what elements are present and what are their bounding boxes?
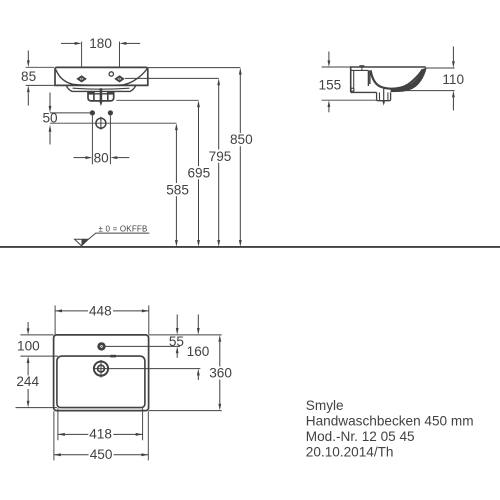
front view: basin outline (55, 67, 148, 85)
side view: underside line (351, 91, 377, 93)
svg-text:85: 85 (21, 69, 36, 84)
dimension 450 line with arrows (54, 453, 148, 456)
reference line 795 (125, 77, 219, 79)
side view: back box right wall (368, 70, 370, 86)
dimension 160 arrows (197, 315, 200, 381)
reference line 695 (116, 99, 198, 101)
drain row reference line (93, 368, 200, 370)
dimension 850 vertical line (239, 68, 242, 247)
top view: outer rim rectangle (54, 335, 149, 411)
reference line 850 (148, 67, 241, 69)
side view: back wall and top rim outline (351, 67, 426, 92)
dimension 244 line with arrows (27, 356, 30, 408)
side view: fixing hole (351, 88, 354, 91)
dimension 180 arrows (61, 42, 140, 45)
dimension 180 extension lines (82, 42, 120, 68)
svg-text:450: 450 (90, 447, 113, 462)
front view: drain circle with cross (96, 117, 106, 130)
front view: overflow circle (109, 72, 113, 76)
dimension 110 arrows (452, 47, 455, 111)
dimension 80 extension lines (92, 116, 110, 165)
drain row reference line to 585 (50, 122, 176, 124)
ground line (0, 246, 500, 248)
side view: drain trap (377, 92, 391, 100)
svg-text:20.10.2014/Th: 20.10.2014/Th (306, 444, 394, 459)
dimension 448 extension lines (55, 305, 149, 334)
top view: tap hole (97, 342, 105, 350)
bolt hole row reference line (50, 112, 90, 114)
svg-text:110: 110 (442, 72, 464, 87)
svg-text:585: 585 (166, 182, 189, 197)
svg-text:244: 244 (16, 374, 39, 389)
svg-text:795: 795 (209, 149, 232, 164)
dimension 795 vertical line (217, 78, 220, 247)
svg-text:50: 50 (42, 111, 58, 126)
dimension 418 extension lines (58, 408, 143, 440)
dimension 418 line with arrows (58, 433, 143, 436)
dimension 360 line with arrows (218, 335, 221, 411)
dimension 50 arrows (49, 93, 52, 145)
front view: left bolt hole (90, 110, 95, 115)
front view: lower apron outline (66, 85, 136, 91)
svg-text:Smyle: Smyle (306, 398, 344, 413)
svg-text:695: 695 (187, 165, 210, 180)
side view: drain stem with arrow (382, 89, 385, 106)
tap hole row reference line (105, 345, 180, 347)
dimension 55 arrows (176, 315, 179, 358)
dimension 110 reference lines (406, 68, 455, 91)
side view: rim band inner line (351, 69, 369, 71)
svg-text:160: 160 (187, 344, 210, 359)
dimension 450 extension lines (54, 411, 148, 460)
dimension 448 line with arrows (55, 309, 149, 312)
front view: right bolt hole (108, 110, 113, 115)
dimension 585 vertical line (175, 123, 178, 247)
side view: front face curve (391, 68, 426, 92)
dimension 80 arrows (74, 156, 130, 159)
dimension 360 reference lines (149, 335, 222, 411)
svg-text:180: 180 (89, 36, 112, 51)
front view: drain trap (88, 91, 114, 101)
svg-text:155: 155 (319, 77, 342, 92)
svg-text:Mod.-Nr. 12 05 45: Mod.-Nr. 12 05 45 (306, 429, 415, 444)
side view: back box inner-left vertical (353, 70, 355, 92)
svg-text:448: 448 (89, 304, 112, 319)
front view: bowl interior curve (56, 69, 147, 85)
top view: overflow slot (110, 355, 116, 358)
svg-text:55: 55 (169, 334, 184, 349)
front view: left fixing hole diamond (76, 75, 87, 82)
svg-text:80: 80 (94, 150, 110, 165)
dimension 695 vertical line (197, 100, 200, 247)
dimension 155 arrows (328, 52, 331, 113)
dimension 100 top arrow (27, 322, 30, 335)
svg-text:± 0 = OKFFB: ± 0 = OKFFB (99, 225, 148, 234)
front view: drain stem with down arrow (99, 88, 102, 106)
front view: right fixing hole diamond (114, 75, 125, 82)
top view: drain with cross (94, 360, 108, 378)
svg-text:360: 360 (209, 366, 232, 381)
dimension 100 reference lines (20, 335, 58, 356)
side view: front wedge fill (391, 68, 426, 92)
datum symbol triangle (75, 233, 150, 246)
dimension 85 arrows (27, 51, 30, 106)
svg-text:418: 418 (89, 427, 112, 442)
inner bottom reference line (16, 407, 57, 409)
front view: apron inner line (73, 87, 130, 90)
svg-text:Handwaschbecken 450 mm: Handwaschbecken 450 mm (306, 414, 474, 429)
dimension 155 reference lines (322, 67, 377, 100)
side view: bowl interior curve (371, 69, 423, 88)
side view: faucet boss (359, 65, 364, 70)
svg-text:850: 850 (230, 132, 253, 147)
title text block (306, 398, 474, 459)
dimension 85 extension lines (26, 67, 54, 85)
top view: inner bowl rectangle (57, 356, 145, 408)
svg-text:100: 100 (17, 338, 40, 353)
